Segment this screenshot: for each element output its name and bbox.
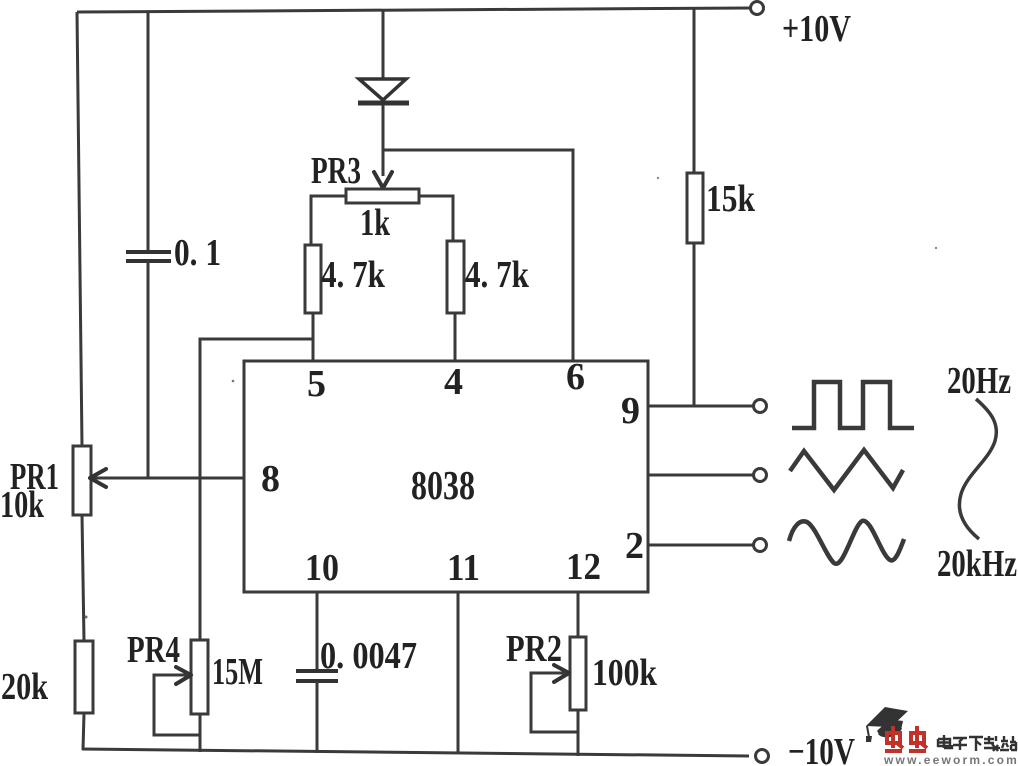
svg-text:15k: 15k (706, 178, 756, 220)
wire pin 10 upper lead (316, 592, 319, 671)
resistor R 15k body (687, 173, 703, 243)
wire junction branch to PR4 rail (200, 339, 313, 640)
svg-text:15M: 15M (212, 651, 263, 693)
wire PR3 right lead (419, 196, 453, 241)
svg-text:4: 4 (444, 361, 463, 403)
svg-text:www.eeworm.com: www.eeworm.com (883, 753, 1018, 766)
wire left rail upper (77, 12, 82, 446)
wire PR4 wiper loop (154, 675, 200, 735)
PR3 wiper arrowhead (374, 172, 392, 188)
wire bottom bus (82, 749, 749, 756)
wire pin triangle output (648, 474, 753, 477)
PR2 wiper arrowhead (554, 665, 569, 682)
watermark logo text 虫虫 (885, 726, 927, 751)
svg-text:2: 2 (625, 525, 644, 567)
wire PR2 wiper loop (531, 673, 578, 732)
svg-text:100k: 100k (592, 652, 658, 694)
svg-text:−10V: −10V (788, 731, 855, 766)
wire diode cathode lead (382, 105, 385, 150)
wire pin 9 output (648, 405, 753, 408)
resistor R 4.7k left body (305, 245, 321, 313)
wire left rail lower (83, 713, 84, 750)
wire pin 12 lead (577, 592, 580, 637)
wire 4.7k right to pin 4 (454, 313, 457, 361)
sine wave symbol (789, 521, 904, 564)
svg-text:20Hz: 20Hz (947, 360, 1011, 402)
svg-text:4. 7k: 4. 7k (321, 254, 386, 296)
svg-text:20k: 20k (1, 666, 49, 708)
svg-text:8: 8 (261, 458, 280, 500)
triangle wave symbol (790, 450, 903, 490)
resistor 20k body (75, 641, 93, 713)
svg-text:0. 0047: 0. 0047 (320, 635, 417, 677)
op-amp U1 8038 IC body (244, 361, 648, 592)
wire PR4 bottom lead (199, 714, 202, 752)
svg-text:9: 9 (621, 390, 640, 432)
terminal triangle output (754, 469, 767, 482)
frequency range brace curve (959, 399, 996, 539)
wire pin 10 lower lead (316, 681, 319, 753)
svg-text:11: 11 (447, 547, 480, 589)
wire 15k bottom lead (693, 243, 696, 406)
capacitor C 0.0047 plates (296, 671, 338, 681)
wire capacitor 0.1 bottom lead (147, 261, 150, 477)
resistor R 4.7k right body (447, 241, 464, 313)
terminal +10V (751, 2, 764, 15)
scan speckles (85, 616, 88, 619)
wire pin 11 to bottom bus (457, 592, 460, 754)
svg-text:6: 6 (566, 356, 585, 398)
svg-text:8038: 8038 (411, 462, 475, 508)
wire top supply bus (77, 8, 750, 12)
square wave symbol (792, 382, 914, 428)
svg-text:4. 7k: 4. 7k (465, 254, 530, 296)
wire PR2 bottom lead (577, 710, 580, 756)
wire 15k top lead (693, 8, 696, 173)
svg-text:5: 5 (307, 363, 326, 405)
potentiometer PR1 body (73, 446, 91, 515)
svg-text:12: 12 (566, 546, 601, 588)
PR1 wiper arrowhead (90, 469, 106, 487)
capacitor C 0.1 plates (126, 252, 171, 261)
svg-text:10k: 10k (0, 484, 45, 526)
wire branch to pin 6 (383, 150, 573, 361)
svg-text:1k: 1k (360, 202, 391, 244)
watermark logo text 电子下载站 (938, 735, 1017, 751)
watermark logo graduation cap (866, 707, 908, 742)
wire 4.7k left to pin 5 (312, 313, 315, 361)
svg-text:PR3: PR3 (311, 150, 361, 192)
terminal -10V (756, 750, 769, 763)
wire PR3 left lead (311, 196, 346, 245)
potentiometer PR2 body (570, 637, 586, 710)
wire pin 2 output (648, 544, 753, 547)
svg-text:10: 10 (305, 547, 339, 589)
wire diode anode lead (382, 10, 385, 79)
potentiometer PR3 body (346, 189, 419, 203)
diode D1 (359, 79, 406, 100)
wire PR3 wiper shaft (382, 150, 385, 176)
svg-text:PR4: PR4 (127, 629, 180, 671)
wire PR1 wiper bus to pin 8 (92, 477, 244, 480)
terminal sine output (754, 539, 767, 552)
svg-text:20kHz: 20kHz (937, 543, 1017, 585)
wire left rail middle (82, 515, 84, 641)
potentiometer PR4 body (191, 640, 208, 714)
PR4 wiper arrowhead (176, 667, 191, 684)
svg-text:+10V: +10V (782, 8, 851, 50)
terminal square output (754, 400, 767, 413)
wire capacitor 0.1 top lead (147, 11, 150, 252)
diode cathode bar (358, 101, 409, 106)
svg-text:0. 1: 0. 1 (174, 232, 221, 274)
